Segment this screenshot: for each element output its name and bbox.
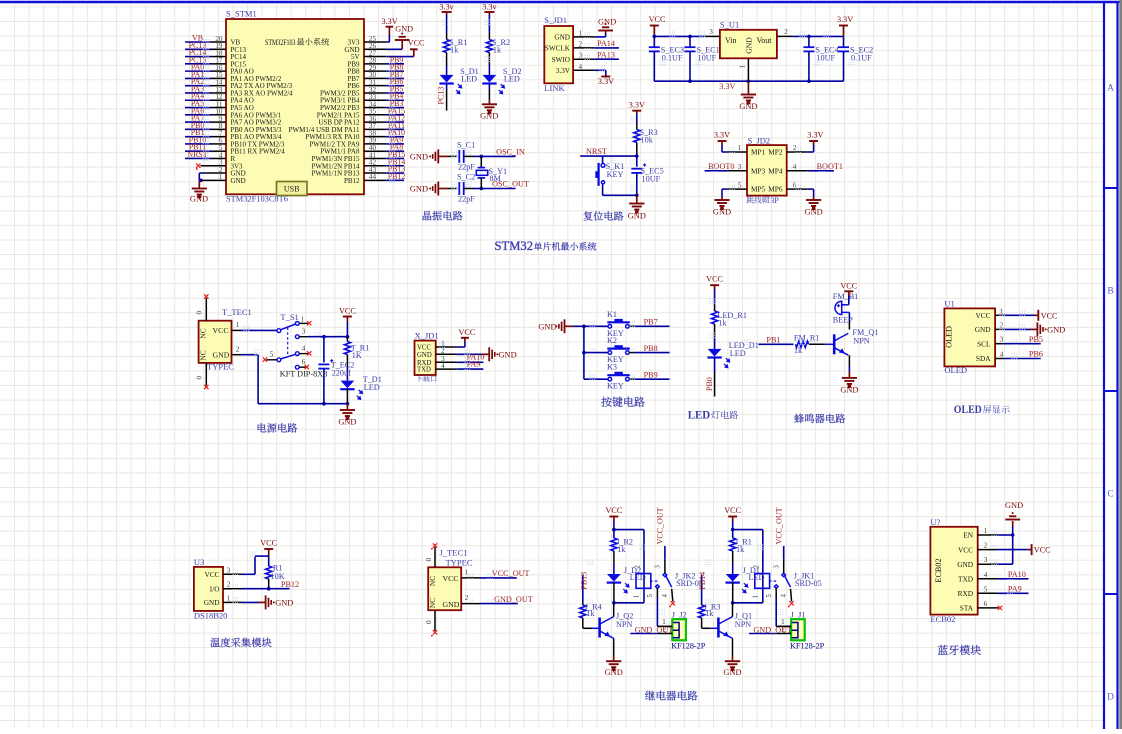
resistor LED_R1 1k: [712, 311, 718, 324]
svg-text:I/O: I/O: [210, 584, 220, 593]
wire bottom rail power circuit: [258, 403, 347, 405]
T_S1 pin4 stub: [299, 353, 308, 355]
wire vcc junction to resistor J_R2: [613, 530, 615, 538]
wire K1 to net PB7: [629, 325, 634, 327]
svg-text:GND: GND: [975, 325, 991, 334]
no-connect x relay pin4 JK1: [789, 601, 793, 605]
svg-text:VCC_OUT: VCC_OUT: [492, 569, 530, 578]
svg-text:OLED: OLED: [954, 402, 982, 416]
svg-text:10k: 10k: [641, 135, 654, 144]
relay pin4 stub JK2: [672, 589, 673, 602]
zone divider C/D: [1104, 593, 1118, 595]
svg-text:J_J2: J_J2: [672, 610, 687, 620]
wire top junction to coil J_R2: [614, 529, 644, 531]
J_TEC1 bottom stub: [434, 610, 436, 631]
crystal S_Y1 8M: [478, 167, 486, 169]
wire K3 to net PB9: [629, 378, 634, 380]
svg-text:0: 0: [424, 558, 433, 562]
svg-text:GND: GND: [840, 385, 858, 394]
wire T_EC2 bottom: [323, 369, 325, 404]
wire buzzer top terminal: [842, 304, 849, 306]
wire cap to gnd node: [636, 173, 638, 195]
svg-text:LED: LED: [504, 75, 520, 84]
wire VCC to R1 and pin3: [268, 556, 270, 566]
svg-text:5: 5: [766, 594, 773, 598]
svg-text:GND: GND: [275, 598, 293, 607]
svg-text:A: A: [1107, 84, 1114, 94]
relay pin3 wire VCC_OUT JK2: [664, 560, 666, 574]
junction bus K2: [582, 351, 586, 355]
wire crystal bottom lead: [480, 178, 482, 189]
wire left pin 20 net VB: [211, 41, 226, 43]
T_S1 pin1 stub: [299, 322, 308, 324]
wire T_TEC1 pin2 gnd down: [232, 354, 242, 356]
power VCC OLED: [1037, 310, 1039, 321]
wire pin 1 GND: [199, 179, 226, 181]
svg-text:X_JD1: X_JD1: [415, 330, 439, 340]
wire NRST to cap: [636, 156, 638, 167]
svg-text:1k: 1k: [736, 545, 745, 554]
svg-text:LED: LED: [461, 75, 477, 84]
svg-text:VCC: VCC: [649, 15, 666, 24]
wire T_R1 to T_D1: [346, 355, 348, 366]
power ground GND pin26: [395, 33, 410, 41]
component body U7 ECB02: [930, 527, 977, 615]
svg-text:1k: 1k: [705, 609, 714, 618]
svg-text:2: 2: [236, 345, 240, 353]
svg-text:8M: 8M: [490, 174, 502, 183]
svg-text:1: 1: [738, 65, 746, 69]
wire emitter J_Q2 to gnd: [613, 638, 615, 655]
LED T_D1: [341, 381, 355, 389]
transistor J_Q1 NPN: [717, 618, 720, 638]
svg-text:TXD: TXD: [958, 575, 973, 584]
wire OSC_OUT: [481, 188, 515, 190]
svg-text:T_TEC1: T_TEC1: [222, 307, 252, 317]
caption 电源电路: [258, 423, 298, 432]
chip left pin numbers 20..1: [215, 35, 223, 181]
svg-text:GND: GND: [213, 351, 230, 360]
svg-text:K2: K2: [607, 336, 617, 345]
svg-text:GND: GND: [713, 208, 731, 217]
wire I/O PB12: [223, 588, 242, 590]
wire pin 25 3V3: [364, 41, 386, 43]
svg-text:LED: LED: [749, 573, 765, 582]
connector body S_JD1: [544, 26, 573, 83]
svg-text:Vout: Vout: [757, 36, 773, 45]
svg-text:3: 3: [302, 327, 306, 336]
svg-text:PB9: PB9: [644, 370, 658, 379]
svg-text:KEY: KEY: [607, 170, 624, 179]
svg-text:U3: U3: [194, 557, 204, 567]
svg-text:3.3V: 3.3V: [714, 131, 730, 140]
wire pin 2 GND: [204, 172, 227, 174]
wire J_D2 to collector junction: [613, 583, 615, 603]
wire T_TEC1 pin1 to switch: [232, 329, 242, 331]
svg-text:GND: GND: [805, 208, 823, 217]
wire gnd stem reset: [636, 195, 638, 203]
sheet right border outer line: [1116, 2, 1118, 729]
svg-text:GND: GND: [745, 37, 754, 54]
relay pin4 stub JK1: [791, 589, 792, 602]
svg-text:TYPEC: TYPEC: [446, 557, 473, 567]
connector body S_JD2: [747, 145, 787, 196]
power VCC bluetooth: [1031, 544, 1033, 555]
wire left pin 18 net PC14: [211, 56, 226, 58]
T_S1 pin6 stub: [299, 366, 305, 368]
junction bus K1: [582, 325, 586, 329]
svg-text:T_S1: T_S1: [280, 312, 298, 322]
svg-text:OSC_IN: OSC_IN: [496, 147, 525, 156]
caption 蜂鸣器电路: [794, 414, 845, 424]
wire relay pin5 into J_J1 pin1: [776, 625, 791, 627]
svg-text:VCC: VCC: [605, 506, 622, 515]
wire right pin 42 net PB14: [364, 165, 386, 167]
svg-text:TYPEC: TYPEC: [207, 362, 234, 372]
wire S_JD1 pin3 PA13: [573, 58, 595, 60]
junction collector J_D1: [731, 601, 735, 605]
capacitor S_EC1 10UF: [685, 46, 696, 48]
wire left pin 17 net PC15: [211, 63, 226, 65]
wire gnd to S_C1: [438, 155, 448, 157]
svg-text:D: D: [1107, 693, 1114, 703]
LED J_D2: [607, 574, 621, 582]
wire top junction to coil J_R1: [733, 529, 763, 531]
no-connect x J_TEC1 bottom: [433, 630, 437, 634]
connector body T_TEC1 TYPEC: [199, 321, 232, 363]
svg-text:VCC: VCC: [443, 574, 459, 583]
wire S_D1 cathode net PC13: [446, 84, 448, 91]
svg-text:VCC: VCC: [260, 539, 277, 548]
junction row3 cap: [322, 335, 326, 339]
svg-text:GND: GND: [499, 350, 517, 359]
pin 2 S_U1: [777, 35, 793, 37]
svg-text:LINK: LINK: [544, 83, 565, 93]
wire STA pin6 stub: [978, 607, 999, 609]
svg-text:GND: GND: [410, 185, 428, 194]
wire OLED pin4 PB6: [995, 358, 1004, 360]
wire OLED pin2 to GND: [995, 328, 1004, 330]
ground DS18B20 horizontal: [266, 595, 275, 609]
junction rail led gnd: [346, 402, 350, 406]
wire left pin 14 net PA2: [211, 85, 226, 87]
svg-text:MP4: MP4: [768, 166, 783, 175]
wire buzzer bottom terminal to collector: [842, 311, 850, 313]
svg-text:220uf: 220uf: [332, 368, 351, 377]
svg-text:1: 1: [634, 595, 641, 598]
svg-text:S_STM1: S_STM1: [226, 9, 257, 19]
svg-text:LED: LED: [688, 407, 711, 421]
chip right pin numbers 25..44: [369, 35, 377, 181]
LED S_D1: [440, 75, 454, 83]
wire JD2 pin3 BOOT0: [728, 170, 747, 172]
svg-text:PA13: PA13: [597, 50, 615, 59]
wire right pin 35 net PA15: [364, 114, 386, 116]
svg-text:PB5: PB5: [1029, 335, 1043, 344]
power 3.3V JD2 right: [809, 140, 818, 142]
wire bus to K2: [584, 352, 608, 354]
svg-text:4: 4: [662, 594, 669, 598]
svg-text:3.3V: 3.3V: [598, 77, 614, 86]
capacitor S_EC3 0.1UF: [649, 46, 660, 48]
power 3.3V JD2 left: [718, 140, 727, 142]
wire JD2 pin6 to GND: [787, 188, 808, 190]
wire X_JD1 pin3 PA10: [436, 361, 457, 363]
T_S1 pin5 stub: [267, 359, 277, 361]
svg-text:LED: LED: [364, 383, 380, 392]
capacitor S_EC5 10UF: [631, 168, 642, 170]
wire S_R3 to NRST node: [636, 143, 638, 157]
S_JD2 pin names and numbers: [738, 144, 797, 194]
wire FM_R1 to base: [809, 343, 825, 345]
wire VCC to top junction J_R1: [732, 521, 734, 530]
svg-text:GND: GND: [605, 668, 623, 677]
junction OSC_IN: [480, 155, 484, 159]
svg-text:2: 2: [227, 581, 231, 589]
junction rail EC1: [688, 35, 692, 39]
svg-text:1: 1: [301, 315, 305, 323]
junction EN gnd: [1011, 533, 1015, 537]
wire J_TEC1 pin2 GND_OUT: [461, 603, 480, 605]
wire J_R4 to base: [582, 618, 584, 628]
svg-text:3.3V: 3.3V: [556, 67, 571, 75]
svg-text:PB14: PB14: [698, 572, 707, 590]
svg-text:5: 5: [738, 181, 742, 189]
pin 3 S_U1: [704, 35, 720, 37]
label 跳线帽3P: [747, 196, 770, 203]
wire base net PB14: [701, 575, 703, 603]
svg-text:GND: GND: [410, 152, 428, 161]
wire GND stem: [198, 180, 200, 188]
svg-text:GND: GND: [1047, 325, 1065, 334]
wire base net PB13: [582, 575, 584, 603]
relay subcircuit left: [579, 506, 705, 677]
svg-text:PB6: PB6: [1029, 350, 1043, 359]
ground power circuit: [340, 410, 355, 419]
wire left pin 9 net PA7: [211, 121, 226, 123]
wire JD2 pin2 to 3.3V: [787, 151, 808, 153]
ground relay J_Q2: [606, 661, 621, 670]
wire JD2 pin1 to 3.3V: [728, 151, 747, 153]
wire left pin 15 net PA1: [211, 77, 226, 79]
relay pin5 wire JK1: [775, 588, 777, 597]
caption 晶振电路: [423, 211, 463, 220]
wire S_R1 to S_D1: [446, 53, 448, 66]
buzzer FM_B1 BEEP: [835, 301, 842, 314]
wire GND_OUT into J_J2 pin2: [630, 633, 658, 635]
wire R1 bottom to I/O: [268, 579, 270, 589]
caption 温度采集模块: [210, 638, 271, 648]
LED J_D1: [726, 574, 740, 582]
wire bottom rail: [654, 80, 843, 82]
wire S_EC4 top lead: [808, 36, 810, 47]
wire S_JD1 pin2 PA14: [573, 47, 595, 49]
svg-text:1k: 1k: [794, 346, 803, 355]
wire left pin 5 net PB11: [211, 150, 226, 152]
svg-text:3: 3: [227, 566, 231, 574]
svg-text:GND: GND: [554, 34, 570, 42]
svg-text:3: 3: [1000, 336, 1004, 344]
wire right pin 43 net PB13: [364, 172, 386, 174]
svg-text:MP6: MP6: [768, 185, 783, 194]
svg-text:BOOT1: BOOT1: [817, 162, 843, 171]
svg-text:GND: GND: [417, 352, 432, 359]
svg-text:PB7: PB7: [644, 318, 658, 327]
svg-text:S_U1: S_U1: [720, 20, 739, 30]
wire X_JD1 pin4 PA9: [436, 368, 457, 370]
capacitor S_C2 22pF: [458, 182, 460, 195]
svg-text:1k: 1k: [493, 46, 502, 55]
component body U3 DS18B20: [194, 567, 223, 611]
svg-text:PB1: PB1: [766, 335, 780, 344]
svg-text:3: 3: [984, 556, 988, 564]
svg-text:1k: 1k: [718, 319, 727, 328]
svg-text:B: B: [1107, 287, 1113, 297]
svg-text:VCC: VCC: [1041, 311, 1058, 320]
wire S_EC4 bottom lead: [808, 51, 810, 81]
wire S_C1 to crystal junction: [464, 155, 474, 157]
wire right pin 39 net PA9: [364, 143, 386, 145]
wire JD2 pin4 BOOT1: [787, 170, 808, 172]
svg-text:SCL: SCL: [977, 339, 991, 348]
svg-text:NC: NC: [199, 350, 208, 360]
pin 1 S_U1 GND: [747, 58, 749, 81]
wire left pin 11 net PA5: [211, 107, 226, 109]
wire top rail right: [793, 35, 844, 37]
svg-text:VCC: VCC: [706, 275, 723, 284]
S_JD1 pin names and numbers: [545, 29, 583, 75]
svg-text:GND: GND: [598, 18, 616, 27]
junction bottom EC4: [807, 79, 811, 83]
svg-text:1k: 1k: [586, 609, 595, 618]
svg-text:10UF: 10UF: [642, 175, 661, 184]
terminal block J_J2 KF128-2P: [672, 619, 686, 640]
wire VCC to top junction J_R2: [613, 521, 615, 530]
junction rail EC2: [322, 402, 326, 406]
no-connect x STA: [998, 606, 1002, 610]
ground relay J_Q1: [725, 661, 740, 670]
svg-text:2: 2: [984, 542, 988, 550]
resistor FM_R1 1k: [796, 341, 809, 347]
svg-text:GND_OUT: GND_OUT: [494, 595, 533, 604]
svg-text:5: 5: [270, 350, 274, 359]
wire right pin 38 net PA10: [364, 136, 386, 138]
svg-text:PC13: PC13: [437, 87, 446, 105]
svg-text:3.3V: 3.3V: [807, 131, 823, 140]
power VCC pin27: [410, 48, 418, 50]
svg-text:3: 3: [738, 163, 742, 171]
wire LED_R1 to LED_D1: [714, 324, 716, 337]
no-connect x pin 3: [196, 164, 200, 168]
wire PB1 to FM_R1: [758, 343, 793, 345]
svg-text:VCC_OUT: VCC_OUT: [656, 507, 665, 544]
ground JD2 right: [806, 200, 821, 209]
resistor S_R3 10k: [634, 130, 640, 143]
svg-text:USB: USB: [284, 185, 300, 194]
svg-text:0: 0: [424, 620, 433, 624]
ground buttons horizontal: [555, 319, 564, 333]
svg-text:NPN: NPN: [853, 337, 869, 346]
svg-text:PB12: PB12: [388, 172, 406, 181]
transistor FM_Q1 NPN: [833, 334, 836, 354]
connector body X_JD1: [415, 341, 436, 375]
wire right pin 36 net PA12: [364, 121, 386, 123]
wire vcc junction to resistor J_R1: [732, 530, 734, 538]
wire right pin 31 net PB6: [364, 85, 386, 87]
svg-text:KEY: KEY: [607, 382, 624, 391]
svg-text:VCC: VCC: [339, 307, 356, 316]
resistor S_R1 1k: [444, 40, 450, 53]
svg-text:GND: GND: [1005, 501, 1023, 510]
relay coil JK1: [755, 574, 770, 589]
wire emitter J_Q1 to gnd: [732, 638, 734, 655]
wire pin 3 stub: [201, 165, 227, 167]
junction reset gnd node: [635, 194, 639, 198]
wire bus to K1: [584, 325, 608, 327]
caption 蓝牙模块: [938, 645, 981, 655]
svg-text:VCC: VCC: [459, 328, 476, 337]
wire left pin 19 net PC13: [211, 48, 226, 50]
junction R1 I/O: [267, 587, 271, 591]
regulator body S_U1: [720, 30, 777, 59]
svg-text:K1: K1: [607, 310, 617, 319]
svg-text:3: 3: [709, 28, 713, 36]
wire left pin 7 net PB1: [211, 136, 226, 138]
caption 继电器电路: [645, 691, 697, 701]
ground reset: [629, 204, 644, 213]
svg-text:MP3: MP3: [751, 166, 766, 175]
ground buzzer: [842, 378, 857, 387]
T_TEC1 top stub pin 0: [205, 298, 207, 321]
LED LED_D1: [708, 349, 722, 357]
svg-text:PA14: PA14: [597, 39, 615, 48]
svg-text:NC: NC: [428, 576, 437, 586]
wire gnd stem bluetooth: [1012, 521, 1014, 526]
svg-text:6: 6: [984, 600, 988, 608]
svg-text:VCC: VCC: [975, 311, 990, 320]
svg-text:1k: 1k: [617, 545, 626, 554]
component body U1 OLED: [944, 308, 995, 366]
svg-text:SRD-05: SRD-05: [795, 579, 822, 588]
svg-text:S_JD2: S_JD2: [748, 136, 771, 146]
wire TXD pin4 PA10: [978, 578, 998, 580]
svg-text:VCC: VCC: [724, 506, 741, 515]
X_JD1 pin names and numbers: [417, 340, 445, 374]
svg-text:3.3v: 3.3v: [439, 3, 454, 12]
svg-text:4: 4: [302, 344, 306, 353]
svg-text:NC: NC: [199, 328, 208, 338]
svg-text:U?: U?: [930, 517, 940, 527]
svg-text:OLED: OLED: [944, 365, 967, 375]
wire S_JD1 pin1 to GND: [573, 36, 595, 38]
svg-text:GND: GND: [628, 212, 646, 221]
U7 pin names and numbers: [957, 527, 988, 613]
no-connect x T_S1 pin4: [307, 351, 311, 355]
wire gnd vertical to pin3: [1012, 535, 1014, 564]
svg-text:3: 3: [773, 565, 780, 569]
wire J_TEC1 pin1 VCC_OUT: [461, 577, 480, 579]
wire bus to K3: [584, 378, 608, 380]
connector body J_TEC1: [428, 567, 461, 610]
svg-text:NRST: NRST: [586, 147, 607, 156]
wire S_EC1 bottom lead: [689, 51, 691, 81]
key switch S_K1 KEY: [601, 164, 605, 168]
svg-text:GND: GND: [190, 195, 208, 204]
junction bottom EC1: [688, 79, 692, 83]
wire RXD pin5 PA9: [978, 592, 998, 594]
svg-text:U1: U1: [944, 299, 954, 309]
svg-text:J_J1: J_J1: [791, 610, 806, 620]
